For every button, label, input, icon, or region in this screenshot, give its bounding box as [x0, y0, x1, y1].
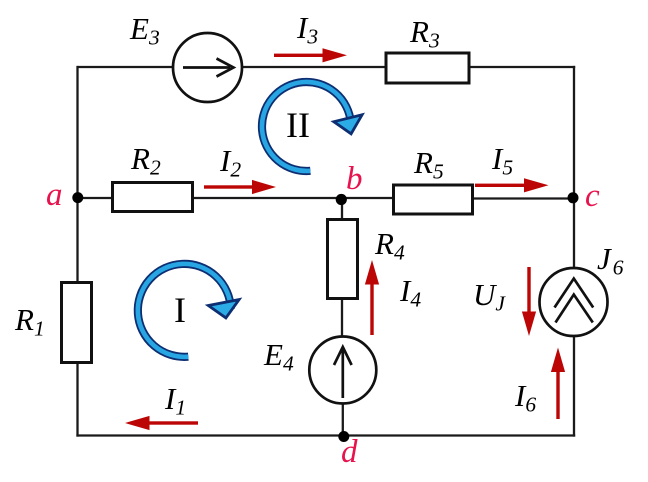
- resistor R1: [62, 283, 92, 363]
- resistor R4: [328, 220, 358, 299]
- svg-text:II: II: [286, 105, 310, 145]
- resistor R3: [386, 53, 469, 83]
- wire node b down to R4: [341, 198, 343, 220]
- wire E3 to R3: [242, 66, 386, 68]
- svg-text:a: a: [46, 177, 63, 213]
- wire left upper: top corner to R1: [76, 66, 78, 283]
- svg-text:I: I: [174, 290, 186, 330]
- wire left lower: R1 to bottom corner: [76, 362, 78, 437]
- wire top-left: node a column top to E3: [78, 66, 174, 68]
- current arrow I4: [365, 260, 379, 335]
- resistor R5: [394, 185, 473, 214]
- wire R3 to top-right corner: [469, 66, 575, 68]
- svg-text:b: b: [346, 161, 363, 197]
- voltage source E4: [309, 337, 376, 404]
- wire middle R2 to R5: [192, 197, 394, 199]
- node a: [72, 192, 83, 203]
- current arrow I6: [551, 348, 565, 420]
- wire right side lower: J6 to bottom corner: [573, 336, 575, 437]
- wire E4 to node d: [342, 403, 344, 437]
- node d: [338, 431, 349, 442]
- current arrow I5: [475, 178, 549, 192]
- resistor R2: [113, 183, 193, 212]
- current source J6: [540, 268, 608, 336]
- voltage source E3: [173, 33, 242, 102]
- node c: [568, 192, 579, 203]
- loop II arrow: [262, 82, 362, 171]
- current arrow I3: [274, 48, 347, 62]
- svg-text:d: d: [341, 434, 358, 470]
- current arrow I2: [204, 180, 276, 194]
- wire middle a to R2: [78, 197, 114, 199]
- node b: [336, 194, 347, 205]
- wire bottom: [76, 434, 575, 436]
- svg-text:c: c: [585, 178, 600, 214]
- voltage arrow UJ: [522, 267, 536, 336]
- wire middle R5 to c: [472, 197, 575, 199]
- current arrow I1: [125, 416, 198, 430]
- wire right side upper: corner c column down to J6: [573, 66, 575, 269]
- loop I arrow: [138, 264, 239, 357]
- wire R4 to E4: [341, 298, 343, 338]
